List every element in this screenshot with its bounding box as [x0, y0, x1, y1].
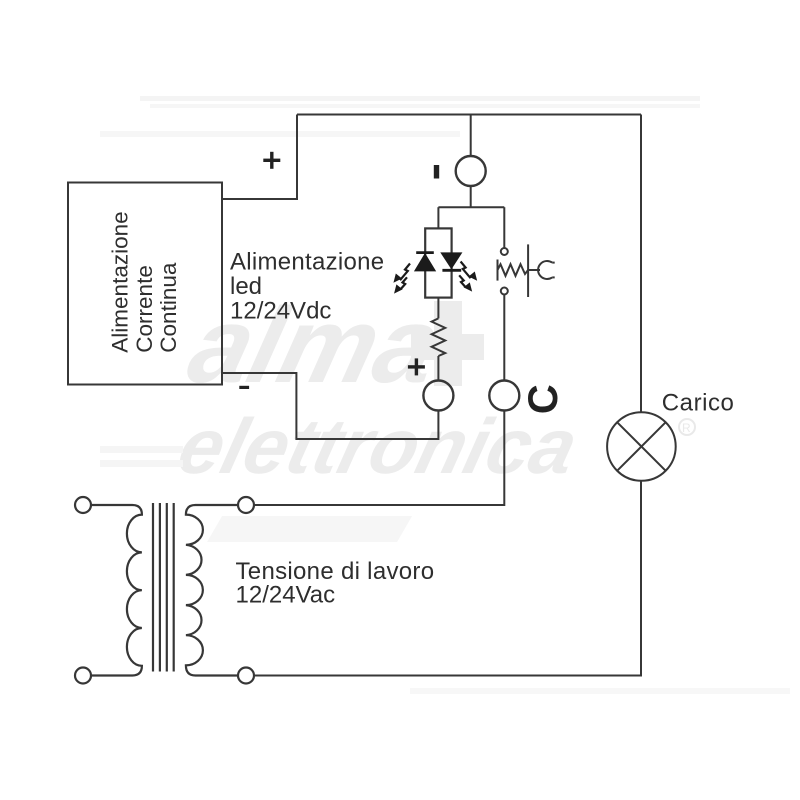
transformer terminals: [75, 497, 254, 684]
SSR output contact: [498, 244, 555, 297]
resistor R: [432, 318, 446, 356]
transformer T1 primary winding: [91, 505, 142, 676]
svg-text:led: led: [230, 273, 262, 300]
wire led box to resistor: [437, 298, 439, 319]
svg-text:R: R: [682, 421, 691, 435]
svg-text:12/24Vdc: 12/24Vdc: [230, 298, 331, 325]
minus mark at top terminal (rotated): [434, 165, 439, 179]
DC supply box: [68, 183, 222, 385]
LED arrows right: [459, 262, 476, 291]
wire right vertical to lamp: [640, 115, 642, 413]
wire split horizontal: [438, 206, 504, 208]
plus label near box: [263, 152, 280, 169]
LED D2 down: [441, 253, 461, 270]
terminal plus (bottom left big circle): [423, 381, 453, 411]
svg-text:Carico: Carico: [662, 390, 735, 417]
minus label near box: [239, 386, 249, 389]
wire split to led box: [437, 207, 439, 228]
wire top horizontal: [297, 114, 641, 116]
lamp Carico: [607, 412, 676, 481]
wire minus from box: [222, 373, 438, 439]
wire resistor to plus terminal: [437, 356, 439, 381]
LED arrows left: [394, 264, 410, 293]
LED indicator box: [425, 228, 451, 297]
svg-text:12/24Vac: 12/24Vac: [236, 581, 336, 608]
wire lamp to bottom: [254, 481, 641, 676]
wire C terminal to transformer: [254, 411, 504, 506]
wire top terminal to split: [470, 115, 472, 157]
plus mark near + terminal: [408, 358, 425, 375]
svg-text:C: C: [519, 384, 566, 414]
wire contact to C terminal: [503, 295, 505, 381]
wire split to contact: [503, 207, 505, 248]
LED D1 up: [415, 253, 436, 271]
transformer T1 secondary winding: [186, 505, 238, 676]
wire plus from box to top: [222, 115, 297, 200]
svg-text:Alimentazione: Alimentazione: [230, 249, 384, 276]
transformer core: [153, 503, 174, 672]
terminal C (big circle): [489, 381, 519, 411]
watermark: [100, 96, 790, 694]
terminal top (DC+): [456, 156, 486, 186]
